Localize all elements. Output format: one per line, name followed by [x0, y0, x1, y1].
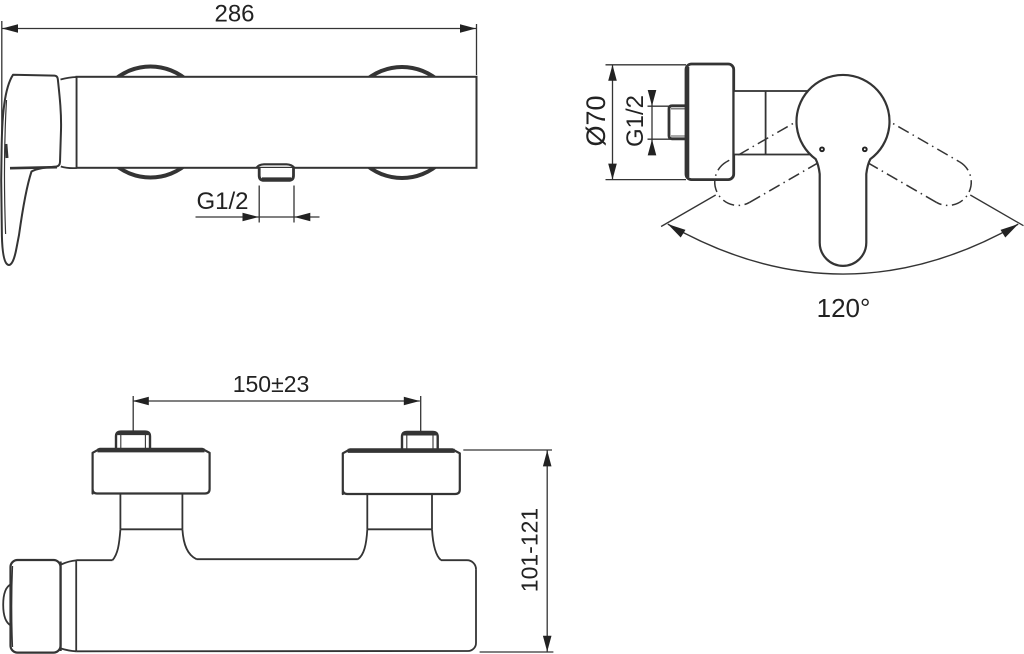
cartridge dome between handle and body (view 1) — [61, 77, 77, 168]
wall rosette circle left (view 1) — [95, 67, 206, 178]
right union nut (view 3) — [402, 432, 438, 449]
body top edge segment c (view 3) — [441, 559, 467, 561]
right nut facet line a (view 3) — [406, 435, 408, 449]
lever handle front view (view 2) — [797, 75, 890, 266]
handle screw dot left (view 2) — [820, 147, 824, 151]
O70 extension line top — [606, 64, 687, 66]
rotated handle ghost right upper edge — [879, 115, 960, 162]
body section (view 2) — [734, 91, 810, 155]
stub thread line top (view 2) — [671, 108, 688, 110]
dimension 150 arrow left — [133, 397, 149, 406]
G1/2 threaded stub (view 2) — [669, 106, 687, 139]
svg-text:286: 286 — [214, 1, 254, 28]
handle screw dot right (view 2) — [863, 147, 867, 151]
dimension 150 line — [133, 400, 420, 402]
body right edge (view 3) — [475, 569, 477, 643]
handle cap face line (view 3) — [11, 566, 14, 647]
svg-text:G1/2: G1/2 — [197, 188, 249, 215]
right rosette thick top edge (view 3) — [348, 449, 455, 453]
left wall rosette plate (view 3) — [93, 449, 210, 494]
dimension 101-121 extension line bottom — [480, 651, 554, 653]
lever handle side view (view 1) — [1, 75, 61, 265]
dimension 286 arrow right — [460, 24, 476, 33]
swing arc arrow right — [1001, 224, 1019, 237]
left union shoulder line (view 3) — [120, 528, 182, 530]
body top edge segment b (view 3) — [197, 558, 358, 560]
svg-text:G1/2: G1/2 — [622, 95, 649, 147]
rotated handle ghost left upper edge — [726, 115, 807, 162]
svg-text:Ø70: Ø70 — [581, 95, 611, 146]
cap right edge (view 3) — [60, 562, 62, 652]
swing arc extension line right — [970, 195, 1023, 226]
handle face dark accent (view 1) — [6, 144, 7, 158]
left union pipe left edge (view 3) — [119, 494, 121, 530]
G1/2 arrow top (view 2) — [648, 90, 657, 106]
dimension 101-121 arrow top — [543, 450, 552, 466]
right nut facet line b (view 3) — [432, 435, 434, 449]
G1/2 extension line right (view 1) — [293, 186, 295, 223]
body top edge segment a (view 3) — [76, 559, 112, 561]
outlet box thick bottom edge (view 1) — [262, 177, 291, 180]
handle cap underside edge (view 1) — [10, 167, 57, 168]
rotated handle ghost right lower edge — [856, 156, 937, 203]
body/cartridge joint line (view 2) — [765, 91, 767, 155]
left nut facet line a (view 3) — [120, 435, 122, 449]
handle face inner contour (view 1) — [4, 100, 6, 234]
G1/2 outlet connector box (view 1) — [259, 168, 293, 180]
body left edge (view 3) — [75, 560, 77, 651]
svg-text:150±23: 150±23 — [233, 371, 310, 397]
swing arc extension line left — [661, 195, 716, 227]
svg-text:120°: 120° — [817, 293, 871, 323]
right wall rosette plate (view 3) — [343, 449, 460, 494]
dimension 286 extension line left — [1, 21, 3, 158]
G1/2 extension line bottom (view 2) — [648, 138, 671, 140]
dimension 150 arrow right — [404, 397, 420, 406]
handle cap plan (view 3) — [11, 560, 61, 653]
outlet flange bump (view 1) — [257, 164, 295, 168]
O70 arrow bottom — [608, 164, 617, 180]
swing arc 120 degrees — [668, 224, 1018, 274]
right union flare right (view 3) — [432, 529, 441, 560]
dimension 101-121 extension line top — [463, 449, 552, 451]
O70 arrow top — [608, 65, 617, 81]
right union shoulder line (view 3) — [367, 528, 432, 530]
body bottom edge (view 3) — [76, 650, 468, 652]
lever tip bulge (view 3) — [3, 584, 11, 626]
wall rosette (view 2) — [686, 64, 734, 180]
svg-text:101-121: 101-121 — [516, 508, 542, 592]
O70 dimension line — [612, 65, 614, 180]
G1/2 arrow bottom (view 2) — [648, 139, 657, 155]
G1/2 arrow left (view 1) — [243, 213, 259, 222]
rotated handle ghost left lower edge — [750, 156, 831, 203]
right union flare left (view 3) — [358, 529, 367, 559]
G1/2 arrow right (view 1) — [294, 213, 310, 222]
rosette left face thick edge (view 2) — [686, 67, 689, 177]
dimension 101-121 line — [546, 451, 548, 652]
left union flare right (view 3) — [182, 529, 196, 559]
mixer body (view 1) — [77, 77, 477, 168]
body top right corner (view 3) — [467, 560, 476, 569]
stub thread line bottom (view 2) — [671, 135, 688, 137]
left nut facet line b (view 3) — [144, 435, 146, 449]
left union flare left (view 3) — [113, 529, 121, 560]
body bottom right corner (view 3) — [468, 643, 476, 651]
rotated handle ghost right end cap — [936, 162, 971, 206]
rotated handle ghost left end cap — [715, 162, 750, 206]
right union pipe left edge (view 3) — [366, 494, 368, 529]
G1/2 extension line top (view 2) — [648, 105, 671, 107]
right union pipe right edge (view 3) — [431, 494, 433, 529]
dimension 286 extension line right — [476, 24, 478, 75]
left nut thick top edge (view 3) — [118, 432, 149, 435]
left union nut (view 3) — [116, 432, 150, 449]
left union pipe right edge (view 3) — [181, 494, 183, 530]
dimension 101-121 arrow bottom — [543, 636, 552, 652]
dome top edge (view 3) — [61, 560, 76, 564]
right nut thick top edge (view 3) — [404, 432, 437, 435]
dimension 286 arrow left — [2, 24, 18, 33]
G1/2 extension line left (view 1) — [258, 186, 260, 223]
G1/2 dimension line (view 2) — [651, 100, 653, 146]
swing arc arrow left — [668, 224, 686, 237]
O70 extension line bottom — [606, 179, 687, 181]
G1/2 dimension line (view 1) — [196, 216, 320, 218]
left rosette thick top edge (view 3) — [98, 448, 205, 452]
dimension 150 extension line right — [420, 396, 422, 431]
dome bottom edge (view 3) — [61, 649, 76, 652]
dimension 150 extension line left — [132, 396, 134, 431]
wall rosette circle right (view 1) — [347, 67, 458, 178]
dimension 286 line — [2, 28, 476, 30]
